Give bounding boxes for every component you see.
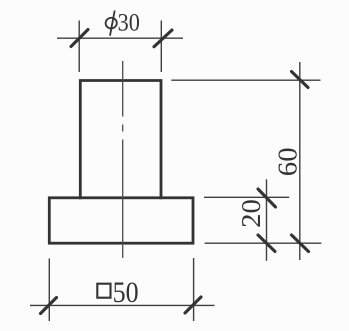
label square symbol: [97, 284, 110, 298]
centerline (vertical dash-dot axis): [122, 61, 124, 258]
extension line from base top: [204, 196, 289, 198]
extension line from cylinder top: [171, 79, 320, 81]
tick square50 right: [185, 297, 201, 313]
tick 60 bottom: [292, 235, 309, 252]
extension line left of phi30: [78, 21, 80, 73]
svg-text:50: 50: [113, 276, 139, 309]
label phi symbol (drawn): [105, 11, 118, 36]
tick phi30 left: [71, 30, 88, 47]
tick square50 left: [41, 298, 57, 314]
tick 60 top: [292, 72, 309, 88]
centerline upper dash: [122, 61, 124, 117]
dim line 60 (vertical): [299, 62, 301, 260]
tick phi30 right: [154, 30, 172, 47]
dim line square50: [30, 304, 215, 306]
svg-text:20: 20: [236, 199, 266, 228]
extension line from base bottom: [205, 242, 322, 244]
dimension and extension lines (thin): [30, 21, 321, 322]
centerline lower dash: [122, 140, 124, 259]
dim line 20 (vertical): [266, 179, 268, 260]
extension line right of phi30: [160, 21, 162, 73]
tick marks (45 deg slashes): [41, 30, 309, 314]
tick 20 bottom: [258, 235, 275, 252]
extension line left of square50: [48, 259, 50, 322]
part outline: cylinder (front view rectangle): [80, 81, 161, 198]
extension line right of square50: [193, 258, 195, 321]
tick 20 top: [258, 189, 276, 207]
part outline: square base plate: [49, 198, 193, 243]
centerline dot: [122, 125, 124, 132]
svg-text:30: 30: [118, 10, 140, 37]
dim line phi30: [57, 37, 183, 39]
svg-text:60: 60: [273, 147, 303, 176]
